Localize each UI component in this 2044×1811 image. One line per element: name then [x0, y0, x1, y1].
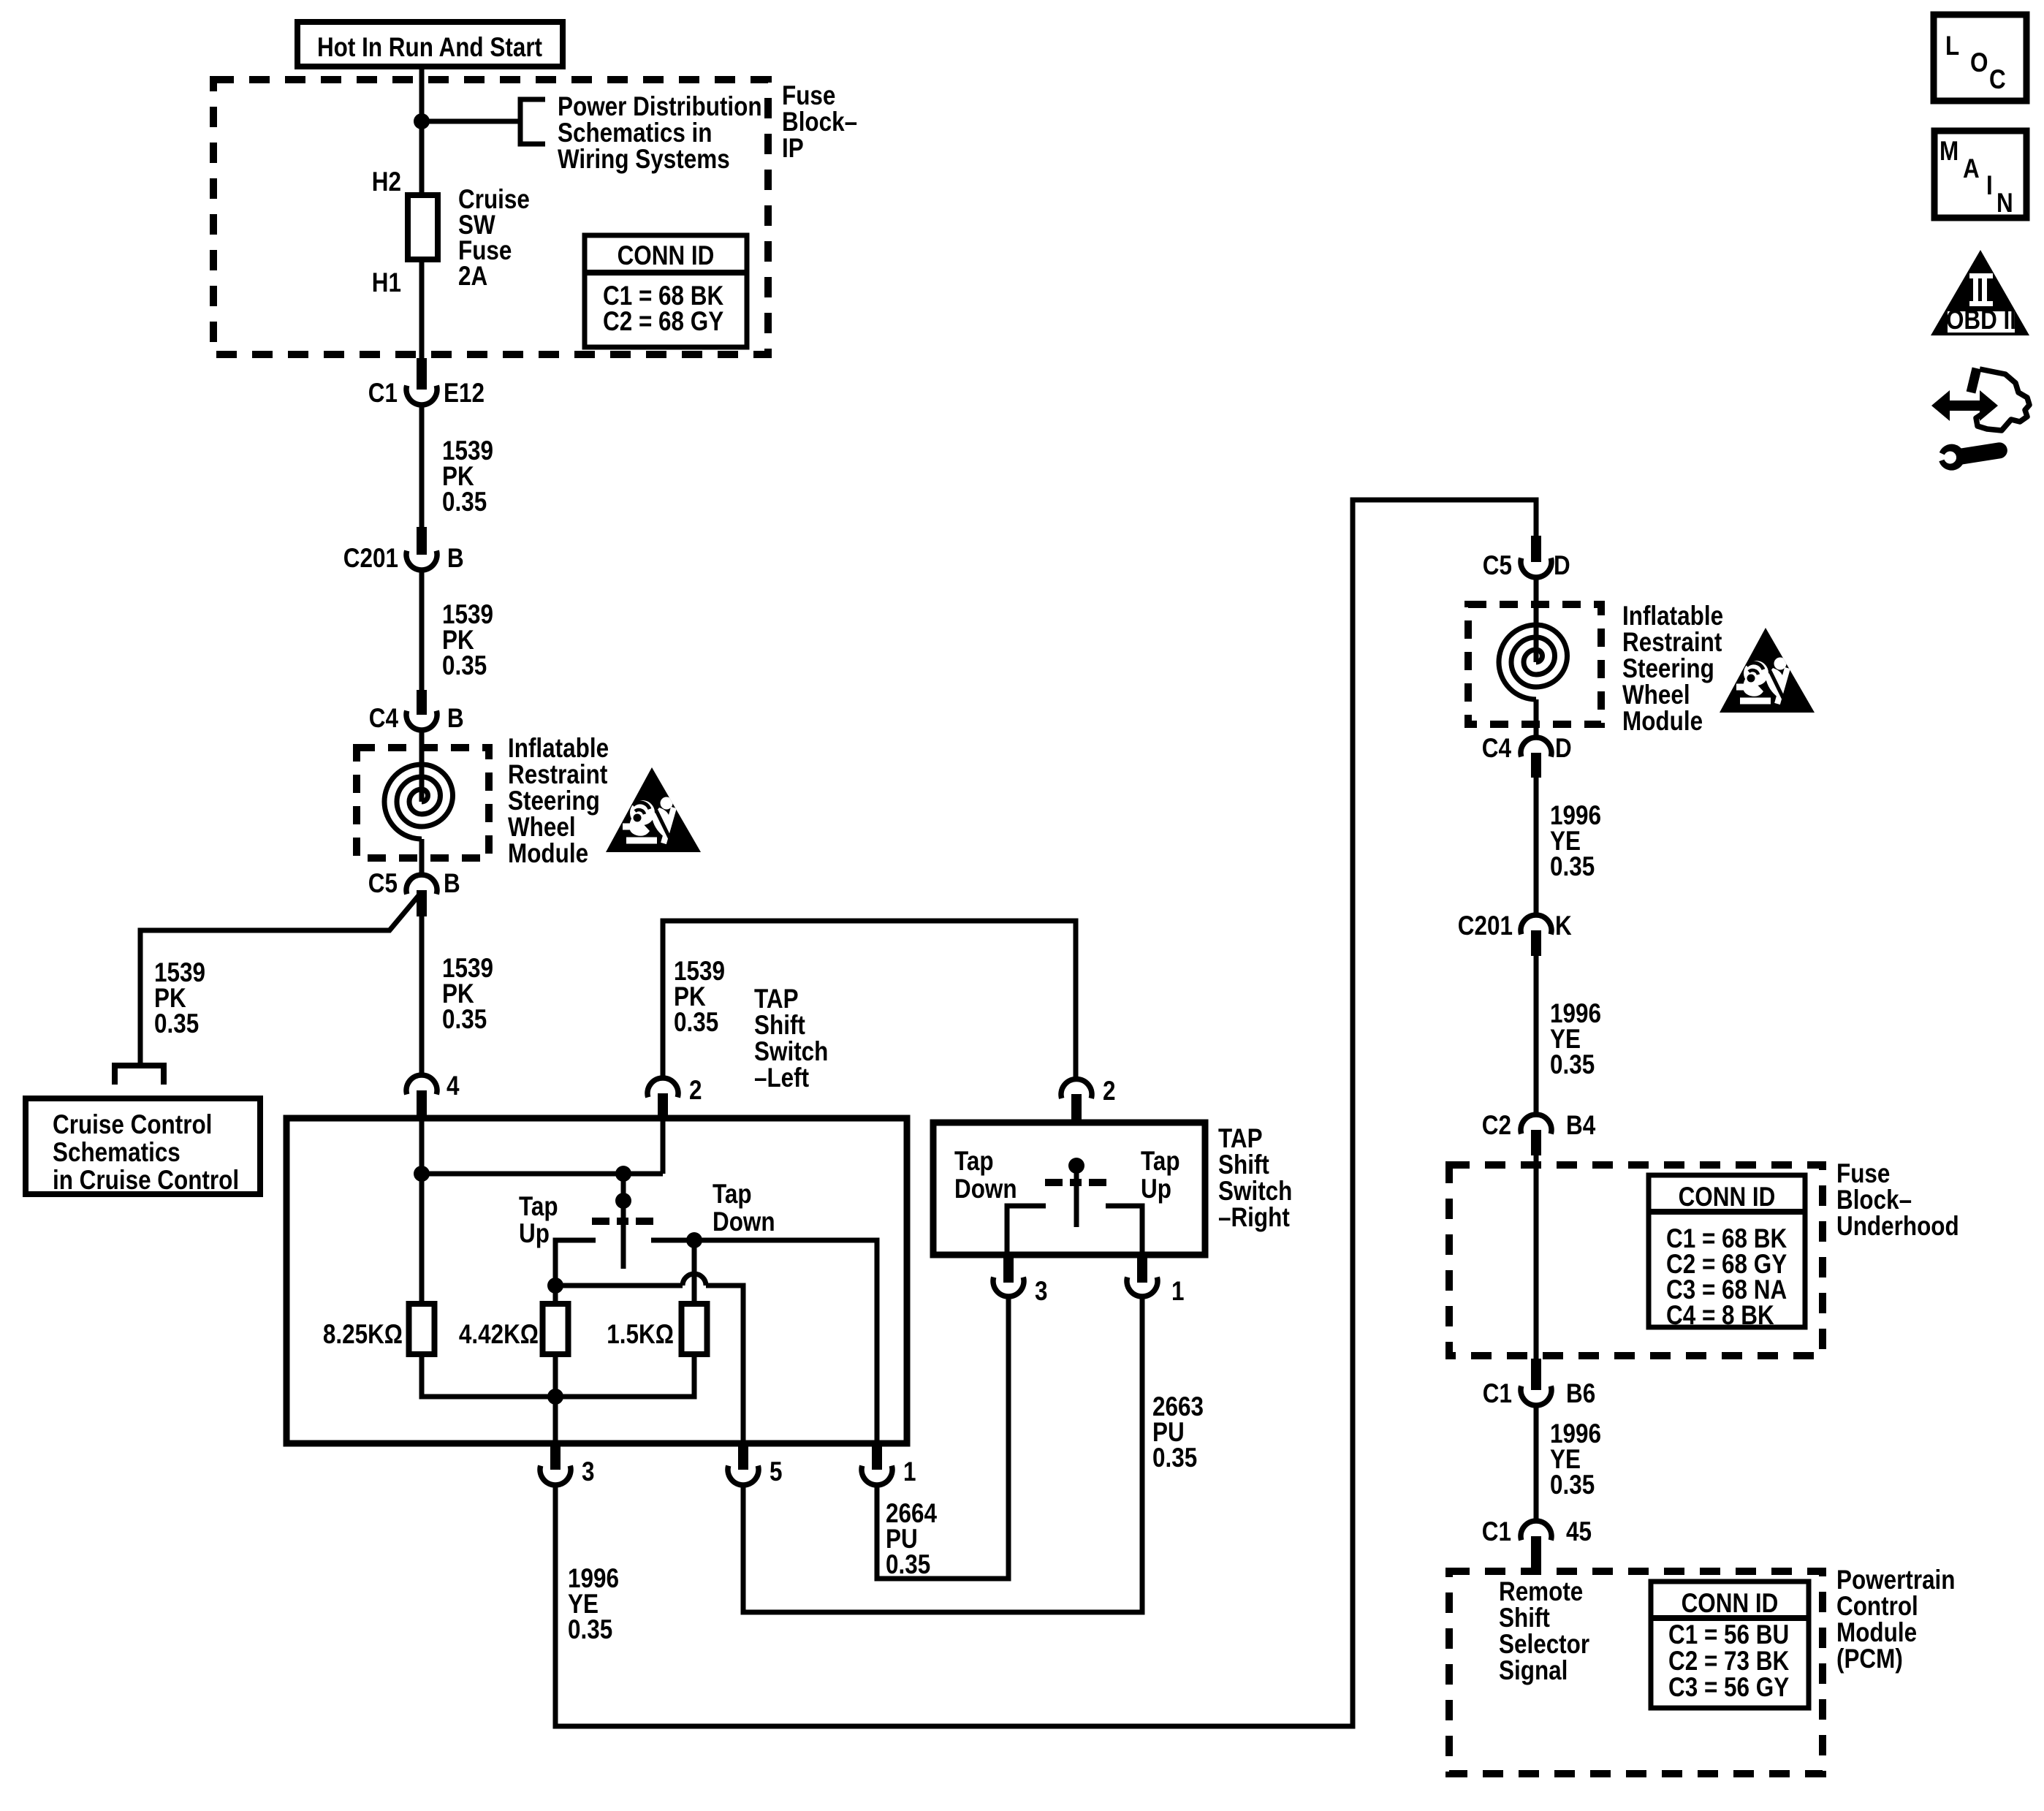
svg-text:C1: C1 [1483, 1378, 1512, 1408]
svg-text:L: L [1945, 31, 1959, 61]
svg-text:0.35: 0.35 [886, 1549, 930, 1579]
svg-text:Switch: Switch [754, 1036, 828, 1066]
svg-text:CONN ID: CONN ID [1682, 1588, 1779, 1618]
svg-text:C201: C201 [343, 543, 398, 573]
svg-text:Inflatable: Inflatable [508, 733, 609, 763]
svg-text:Selector: Selector [1499, 1629, 1589, 1659]
svg-text:Remote: Remote [1499, 1576, 1583, 1606]
svg-text:Wheel: Wheel [1622, 680, 1690, 710]
svg-text:OBD II: OBD II [1946, 305, 2016, 335]
svg-text:in Cruise Control: in Cruise Control [53, 1165, 239, 1195]
svg-text:Schematics in: Schematics in [558, 118, 713, 148]
svg-text:C5: C5 [368, 868, 398, 898]
svg-text:B: B [447, 543, 464, 573]
svg-text:Module: Module [1836, 1617, 1917, 1647]
svg-text:B6: B6 [1566, 1378, 1595, 1408]
svg-text:45: 45 [1566, 1516, 1592, 1546]
svg-text:C3 = 56 GY: C3 = 56 GY [1668, 1672, 1789, 1702]
svg-text:O: O [1970, 48, 1988, 77]
svg-text:3: 3 [582, 1457, 595, 1487]
svg-text:Underhood: Underhood [1836, 1211, 1959, 1241]
svg-text:Fuse: Fuse [782, 80, 835, 110]
svg-text:C1: C1 [1482, 1516, 1511, 1546]
svg-text:Up: Up [519, 1218, 550, 1248]
svg-text:Module: Module [1622, 706, 1703, 736]
svg-text:Block–: Block– [1836, 1185, 1912, 1215]
svg-text:N: N [1996, 188, 2013, 218]
svg-text:C2 = 73 BK: C2 = 73 BK [1668, 1646, 1789, 1676]
svg-text:Tap: Tap [1141, 1146, 1180, 1176]
svg-text:4: 4 [447, 1071, 460, 1101]
svg-text:Restraint: Restraint [1622, 627, 1722, 657]
svg-text:–Right: –Right [1218, 1202, 1290, 1232]
svg-text:0.35: 0.35 [568, 1614, 612, 1644]
svg-text:B4: B4 [1566, 1110, 1596, 1140]
svg-text:Fuse: Fuse [1836, 1158, 1890, 1188]
svg-text:0.35: 0.35 [442, 1004, 487, 1034]
svg-text:H1: H1 [372, 267, 401, 297]
svg-text:Down: Down [954, 1174, 1017, 1204]
svg-text:Cruise Control: Cruise Control [53, 1109, 212, 1139]
svg-text:C: C [1989, 64, 2006, 94]
svg-text:–Left: –Left [754, 1063, 809, 1093]
svg-text:Power Distribution: Power Distribution [558, 91, 762, 121]
svg-text:Shift: Shift [1499, 1603, 1550, 1633]
svg-text:B: B [447, 703, 464, 733]
svg-text:C4: C4 [1482, 733, 1512, 763]
svg-text:E12: E12 [444, 378, 485, 408]
svg-text:D: D [1554, 550, 1570, 580]
svg-text:C2 = 68 GY: C2 = 68 GY [603, 306, 723, 336]
svg-text:CONN ID: CONN ID [618, 240, 715, 270]
svg-text:TAP: TAP [1218, 1123, 1263, 1153]
svg-text:I: I [1986, 170, 1993, 200]
svg-text:4.42KΩ: 4.42KΩ [459, 1319, 539, 1349]
svg-text:Powertrain: Powertrain [1836, 1565, 1956, 1595]
svg-text:Up: Up [1141, 1174, 1171, 1204]
svg-text:2A: 2A [458, 261, 487, 291]
svg-text:Tap: Tap [519, 1191, 558, 1221]
svg-text:M: M [1939, 136, 1958, 166]
svg-text:Schematics: Schematics [53, 1137, 181, 1167]
svg-text:K: K [1555, 911, 1572, 941]
svg-text:C4: C4 [369, 703, 399, 733]
svg-text:8.25KΩ: 8.25KΩ [323, 1319, 403, 1349]
svg-text:1: 1 [903, 1457, 916, 1487]
svg-text:Steering: Steering [508, 786, 600, 816]
svg-text:Wiring Systems: Wiring Systems [558, 144, 730, 174]
svg-text:Shift: Shift [1218, 1150, 1269, 1180]
svg-text:B: B [444, 868, 460, 898]
svg-text:3: 3 [1035, 1276, 1048, 1306]
svg-text:C201: C201 [1458, 911, 1513, 941]
svg-text:0.35: 0.35 [442, 487, 487, 517]
svg-text:C1: C1 [368, 378, 398, 408]
svg-text:(PCM): (PCM) [1836, 1644, 1903, 1674]
svg-text:Wheel: Wheel [508, 812, 576, 842]
svg-text:D: D [1555, 733, 1572, 763]
svg-text:0.35: 0.35 [154, 1009, 199, 1039]
svg-text:Hot In Run And Start: Hot In Run And Start [317, 32, 542, 62]
svg-text:C1 = 56 BU: C1 = 56 BU [1668, 1620, 1789, 1649]
svg-text:0.35: 0.35 [1152, 1443, 1197, 1473]
svg-text:Block–: Block– [782, 107, 857, 137]
svg-text:1: 1 [1171, 1276, 1185, 1306]
svg-text:0.35: 0.35 [442, 650, 487, 680]
svg-text:Switch: Switch [1218, 1176, 1292, 1206]
svg-text:0.35: 0.35 [1550, 1049, 1595, 1079]
svg-text:CONN ID: CONN ID [1679, 1182, 1776, 1212]
svg-text:Module: Module [508, 838, 588, 868]
svg-text:IP: IP [782, 133, 804, 163]
svg-text:Down: Down [713, 1207, 775, 1237]
svg-text:Control: Control [1836, 1591, 1918, 1621]
svg-text:0.35: 0.35 [1550, 851, 1595, 881]
svg-text:0.35: 0.35 [674, 1007, 718, 1037]
svg-text:H2: H2 [372, 167, 401, 197]
svg-text:Shift: Shift [754, 1010, 805, 1040]
svg-text:A: A [1963, 153, 1980, 183]
svg-text:5: 5 [770, 1457, 783, 1487]
svg-text:Steering: Steering [1622, 653, 1714, 683]
svg-text:C4 = 8 BK: C4 = 8 BK [1666, 1300, 1774, 1330]
svg-text:C2: C2 [1482, 1110, 1511, 1140]
svg-text:1.5KΩ: 1.5KΩ [607, 1319, 674, 1349]
svg-text:2: 2 [1103, 1076, 1116, 1106]
svg-text:Tap: Tap [713, 1179, 752, 1209]
svg-text:C5: C5 [1483, 550, 1512, 580]
svg-text:Signal: Signal [1499, 1655, 1568, 1685]
svg-text:2: 2 [689, 1075, 702, 1105]
svg-text:0.35: 0.35 [1550, 1470, 1595, 1500]
svg-text:Restraint: Restraint [508, 759, 607, 789]
svg-text:Inflatable: Inflatable [1622, 601, 1723, 631]
svg-text:Tap: Tap [954, 1146, 994, 1176]
svg-text:TAP: TAP [754, 984, 799, 1014]
